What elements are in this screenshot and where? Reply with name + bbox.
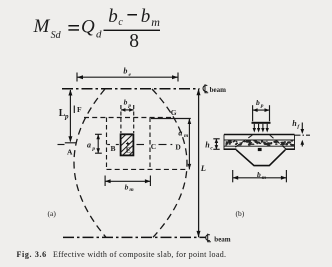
decking bottom flange (outside rib) — [224, 148, 236, 150]
svg-text:E: E — [126, 145, 131, 154]
bottom of finishes / top of concrete — [224, 139, 295, 141]
svg-text:c: c — [118, 17, 123, 28]
svg-text:p: p — [64, 113, 69, 121]
svg-text:8: 8 — [129, 31, 139, 52]
svg-text:Q: Q — [81, 17, 95, 38]
span dimension L between beam CLs — [198, 89, 200, 237]
a_p dimension — [95, 134, 102, 153]
svg-text:Sd: Sd — [51, 30, 62, 41]
svg-text:a: a — [87, 140, 91, 149]
b_m dimension (section) — [233, 170, 287, 182]
svg-text:m: m — [262, 175, 267, 181]
svg-text:m: m — [151, 15, 160, 29]
decking top flange — [224, 145, 295, 147]
formula M_Sd = Q_d (b_c - b_m)/8 — [33, 6, 161, 52]
hatched loaded area — [121, 134, 134, 155]
b_p dimension (plan) — [121, 105, 134, 133]
svg-text:G: G — [171, 108, 177, 117]
dimension L_p (left) — [65, 90, 76, 143]
svg-text:B: B — [111, 144, 116, 153]
svg-text:p: p — [260, 103, 264, 109]
top of finishes — [224, 134, 295, 136]
bottom centerline (beam CL) — [63, 236, 206, 238]
svg-text:b: b — [108, 6, 118, 27]
b_m dimension (plan) — [105, 176, 150, 187]
svg-text:(b): (b) — [236, 209, 245, 218]
point F — [73, 106, 75, 114]
center dash-dot line through A B E C D — [58, 144, 173, 146]
a_m dimension (right of rect) — [151, 118, 191, 120]
svg-text:L: L — [200, 163, 206, 173]
svg-text:a: a — [178, 129, 182, 138]
slab section — [224, 135, 295, 151]
svg-text:b: b — [256, 98, 260, 107]
svg-text:beam: beam — [214, 235, 231, 243]
b_p dimension (section) — [253, 105, 270, 121]
outer dashed rectangle b_m x a_m — [107, 118, 187, 170]
svg-text:b: b — [257, 170, 261, 179]
svg-text:Effective width of composite s: Effective width of composite slab, for p… — [53, 250, 226, 259]
CL symbol top — [203, 84, 226, 94]
svg-text:D: D — [175, 143, 181, 152]
slab right edge — [294, 135, 296, 151]
svg-text:F: F — [77, 105, 82, 114]
left effective-width curve — [74, 89, 106, 237]
slab left edge — [223, 135, 225, 151]
svg-text:p: p — [127, 103, 131, 109]
deck rib — [236, 150, 285, 166]
concrete speckle — [225, 140, 295, 146]
svg-text:(a): (a) — [48, 209, 57, 218]
svg-text:b: b — [123, 66, 127, 75]
svg-text:p: p — [91, 146, 95, 152]
stud / mark — [258, 148, 262, 151]
horizontal dashed line through F-G (rect top level) — [84, 117, 172, 119]
svg-text:beam: beam — [210, 86, 227, 94]
svg-text:m: m — [184, 133, 189, 139]
svg-text:A: A — [67, 148, 73, 157]
point load block + arrows — [252, 122, 271, 124]
svg-text:d: d — [96, 28, 102, 40]
45deg spread lines — [233, 135, 252, 149]
top centerline (beam CL) — [62, 88, 200, 90]
svg-text:m: m — [129, 187, 134, 193]
dimension b_e — [77, 73, 178, 82]
CL symbol bottom — [206, 234, 231, 244]
right effective-width curve — [152, 89, 187, 237]
svg-text:b: b — [141, 6, 151, 27]
svg-text:Fig. 3.6: Fig. 3.6 — [17, 250, 47, 259]
load centre cross + E — [126, 142, 129, 145]
svg-text:M: M — [33, 16, 51, 37]
svg-text:b: b — [125, 182, 129, 191]
svg-text:C: C — [151, 142, 156, 151]
svg-text:b: b — [124, 98, 128, 107]
